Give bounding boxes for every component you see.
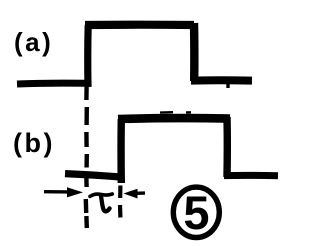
- tick below (a) right baseline: [226, 84, 229, 88]
- waveform (b) right baseline: [224, 172, 278, 179]
- tau label: [90, 194, 112, 211]
- svg-text:(a): (a): [14, 27, 53, 57]
- waveform (a) left baseline: [17, 80, 87, 88]
- dashed line at rising edge of (b): [118, 186, 123, 218]
- waveform (a) top: [85, 21, 194, 29]
- left arrow of tau interval: [44, 190, 70, 194]
- svg-text:5: 5: [183, 186, 209, 239]
- right arrow of tau interval: [134, 191, 145, 195]
- waveform (a) rising edge: [84, 25, 92, 87]
- dashed line at rising edge of (a): [86, 87, 87, 228]
- waveform (b) rising edge: [117, 119, 125, 183]
- scan specks above waveform (b) top: [160, 111, 191, 114]
- waveform (a) falling edge: [190, 23, 199, 81]
- waveform (a) right baseline: [191, 76, 252, 84]
- figure number circle: [173, 187, 219, 237]
- waveform (b) falling edge: [223, 117, 231, 177]
- svg-text:(b): (b): [13, 128, 55, 158]
- waveform (b) top: [118, 114, 230, 124]
- waveform (b) left baseline: [65, 174, 121, 177]
